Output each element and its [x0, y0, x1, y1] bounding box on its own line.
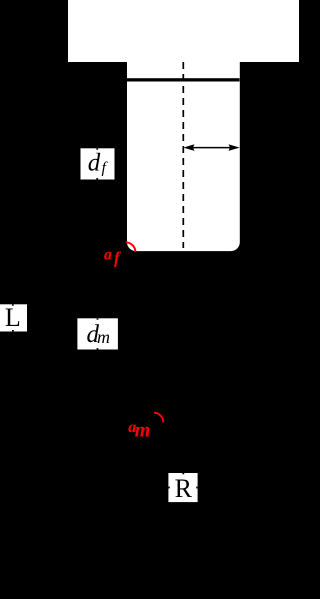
svg-text:L: L: [5, 303, 21, 332]
svg-text:m: m: [97, 327, 110, 347]
svg-text:a: a: [104, 247, 112, 264]
svg-text:m: m: [135, 420, 151, 442]
svg-text:d: d: [88, 149, 101, 176]
svg-text:R: R: [175, 474, 193, 503]
svg-text:f: f: [114, 249, 122, 268]
